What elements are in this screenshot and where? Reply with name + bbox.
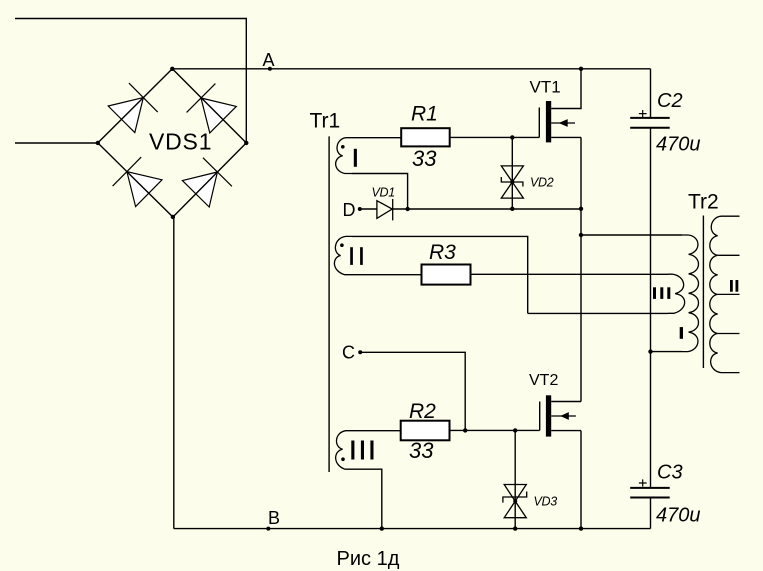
node VT1 drain junction bbox=[579, 67, 583, 71]
node bridge bottom vertex bbox=[171, 215, 175, 219]
VT2 arrow head bbox=[560, 412, 569, 420]
VT2 arrow line bbox=[551, 415, 576, 417]
svg-text:R3: R3 bbox=[429, 241, 456, 264]
diode VDS1 bottom-right triangle bbox=[182, 172, 217, 207]
wire winding III bottom to B bbox=[352, 469, 382, 528]
wire VT1 source / VT2 drain column bbox=[580, 137, 582, 401]
resistor R2 body bbox=[401, 421, 450, 441]
Tr1 winding II label bars bbox=[350, 247, 353, 265]
svg-text:VT2: VT2 bbox=[529, 372, 558, 389]
VT1 arrow head bbox=[559, 119, 568, 127]
Tr1 winding I phase dot bbox=[341, 145, 345, 149]
bridge VDS1 diamond edges bbox=[98, 69, 247, 217]
svg-text:Рис 1д: Рис 1д bbox=[337, 548, 400, 570]
node VD3 center bbox=[513, 499, 517, 503]
Tr2 winding II tap 3 bbox=[718, 293, 740, 295]
zener VD3 bar bbox=[503, 492, 527, 503]
VT2 drain lead bbox=[551, 401, 581, 403]
svg-text:R2: R2 bbox=[409, 400, 436, 423]
diode VD1 triangle bbox=[377, 201, 392, 219]
node bridge left vertex bbox=[96, 141, 100, 145]
transistor VT2 gate line bbox=[539, 402, 541, 431]
capacitor C2 plates bbox=[630, 118, 670, 128]
resistor R1 body bbox=[401, 128, 450, 146]
Tr2 left inner winding I bbox=[682, 235, 699, 352]
wire node A horizontal bbox=[172, 68, 650, 70]
zener VD2 bar bbox=[501, 177, 523, 187]
VT2 source lead bbox=[551, 430, 581, 432]
wire left branch to B bbox=[172, 217, 175, 529]
C3 plus sign bbox=[639, 479, 647, 486]
transistor VT1 gate line bbox=[538, 108, 540, 138]
wire VT1 source to Tr2 winding top bbox=[581, 234, 682, 236]
resistor R3 body bbox=[422, 265, 471, 285]
wire to Tr2 winding III bottom bbox=[528, 312, 668, 314]
Tr1 winding III bbox=[336, 431, 352, 470]
node VD3 bottom junction bbox=[513, 526, 517, 530]
svg-text:VD3: VD3 bbox=[534, 495, 558, 509]
wire R3 to Tr2 winding III top bbox=[471, 273, 669, 275]
wire winding I bottom to D line bbox=[352, 174, 408, 210]
svg-text:B: B bbox=[268, 508, 280, 528]
node VD2 bottom junction bbox=[510, 207, 514, 211]
Tr2 winding II label bars bbox=[730, 280, 733, 292]
wire winding II bottom to R3 bbox=[352, 274, 422, 276]
capacitor C2 top connection bbox=[650, 69, 652, 118]
capacitor C3 plates bbox=[630, 488, 670, 498]
svg-text:33: 33 bbox=[409, 438, 434, 463]
wire AC input left bbox=[15, 142, 98, 144]
transistor VT2 channel bar bbox=[546, 395, 551, 436]
zener VD2 connection line bbox=[511, 137, 513, 208]
diode VDS1 top-left triangle bbox=[108, 98, 143, 133]
svg-text:VT1: VT1 bbox=[530, 78, 561, 97]
svg-text:C: C bbox=[342, 343, 355, 363]
diode VDS1 bottom-left cathode bar bbox=[113, 157, 142, 186]
svg-text:Tr1: Tr1 bbox=[310, 110, 341, 133]
svg-text:R1: R1 bbox=[411, 103, 438, 126]
node bridge right vertex bbox=[244, 141, 248, 145]
Tr2 winding II tap 2 bbox=[718, 254, 740, 256]
svg-text:33: 33 bbox=[412, 146, 437, 171]
node D wire / source column junction bbox=[579, 207, 583, 211]
wire VT2 source down bbox=[580, 431, 582, 529]
diode VDS1 top-left cathode bar bbox=[129, 83, 158, 112]
wire VD1 to VT1 source column bbox=[393, 208, 581, 210]
svg-text:VD2: VD2 bbox=[530, 176, 554, 190]
terminal C wire bbox=[360, 352, 465, 430]
diode VDS1 bottom-right cathode bar bbox=[203, 158, 232, 187]
wire AC input top bbox=[15, 19, 246, 143]
VT1 source lead bbox=[551, 136, 581, 138]
node B terminal dot bbox=[266, 527, 270, 531]
svg-text:VD1: VD1 bbox=[372, 186, 395, 200]
wire winding I to R1 bbox=[352, 137, 401, 139]
svg-text:D: D bbox=[343, 200, 356, 220]
transformer Tr1 core bbox=[328, 136, 330, 472]
node bridge top vertex bbox=[170, 67, 174, 71]
Tr2 winding III label bars bbox=[653, 287, 656, 299]
transformer Tr2 core bbox=[702, 216, 704, 369]
node Tr2 inner bottom / column junction bbox=[648, 349, 652, 353]
wire winding III top to R2 bbox=[352, 430, 401, 432]
node VT2 source / B wire junction bbox=[579, 526, 583, 530]
wire winding II top long run bbox=[352, 236, 528, 313]
terminal D wire with diode VD1 bbox=[360, 208, 377, 210]
Tr1 winding I bbox=[336, 138, 352, 174]
node C terminal dot bbox=[358, 350, 362, 354]
node C / R2 junction bbox=[463, 428, 467, 432]
transistor VT1 channel bar bbox=[546, 101, 551, 142]
zener VD3 top triangle bbox=[504, 485, 526, 502]
Tr2 right winding II bbox=[710, 216, 740, 372]
svg-text:470u: 470u bbox=[656, 505, 701, 527]
node winding I / D wire junction bbox=[405, 207, 409, 211]
C2 plus sign bbox=[639, 110, 647, 117]
capacitor C3 bottom connection bbox=[650, 498, 652, 529]
zener VD3 bottom triangle bbox=[504, 501, 526, 518]
node VD2 center bbox=[510, 180, 514, 184]
node D terminal dot bbox=[358, 207, 362, 211]
Tr1 winding II bbox=[334, 236, 352, 274]
Tr1 winding III label bars bbox=[351, 441, 354, 460]
wire node B horizontal bbox=[174, 528, 651, 530]
VT1 drain lead bbox=[551, 69, 581, 109]
node source column / Tr2 wire junction bbox=[579, 233, 583, 237]
svg-text:C2: C2 bbox=[657, 90, 683, 112]
node A terminal dot bbox=[268, 67, 272, 71]
diode VD1 cathode bar bbox=[392, 199, 394, 220]
Tr1 winding I label bar bbox=[354, 149, 357, 167]
Tr2 winding II tap 4 bbox=[718, 333, 740, 335]
node VD3 top junction bbox=[513, 428, 517, 432]
svg-text:Tr2: Tr2 bbox=[688, 191, 719, 214]
diode VDS1 top-right triangle bbox=[201, 98, 236, 133]
wire C2 to C3 column bbox=[650, 128, 652, 488]
wire R1 to VT1 gate bbox=[450, 136, 540, 138]
node winding III / B wire junction bbox=[380, 526, 384, 530]
wire Tr2 inner winding bottom to column bbox=[651, 351, 683, 353]
diode VDS1 bottom-left triangle bbox=[127, 172, 162, 207]
svg-text:VDS1: VDS1 bbox=[149, 129, 212, 155]
zener VD2 bottom triangle bbox=[501, 182, 523, 198]
Tr2 winding I label bar bbox=[680, 327, 683, 339]
diode VDS1 top-right cathode bar bbox=[187, 84, 216, 113]
zener VD2 top triangle bbox=[501, 166, 523, 182]
Tr1 winding III phase dot bbox=[341, 457, 345, 461]
zener VD3 connection line bbox=[514, 430, 516, 528]
wire R2 to VT2 gate bbox=[450, 429, 540, 431]
svg-text:A: A bbox=[263, 50, 275, 70]
svg-text:470u: 470u bbox=[656, 134, 701, 156]
svg-text:C3: C3 bbox=[657, 462, 683, 484]
Tr2 left outer winding III bbox=[668, 274, 685, 313]
node VT1 gate / VD2 junction bbox=[510, 135, 514, 139]
VT1 arrow line bbox=[551, 122, 575, 124]
Tr1 winding II phase dot bbox=[340, 243, 344, 247]
